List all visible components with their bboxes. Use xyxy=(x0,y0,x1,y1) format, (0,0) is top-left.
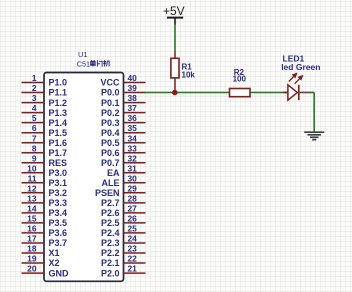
pin 36 (P0.3) xyxy=(101,113,146,128)
pin 26 (P2.5) xyxy=(101,214,146,229)
pin 37 (P0.2) xyxy=(101,103,146,118)
pin 18 (X1) xyxy=(22,244,60,259)
svg-text:P2.3: P2.3 xyxy=(101,238,120,248)
svg-text:P1.7: P1.7 xyxy=(49,148,68,158)
svg-text:P3.7: P3.7 xyxy=(49,238,68,248)
svg-text:+5V: +5V xyxy=(163,4,185,18)
svg-text:PSEN: PSEN xyxy=(95,188,120,198)
svg-text:X2: X2 xyxy=(49,258,60,268)
svg-text:37: 37 xyxy=(128,103,138,113)
svg-text:P1.3: P1.3 xyxy=(49,108,68,118)
pin 22 (P2.1) xyxy=(101,254,146,269)
svg-text:3: 3 xyxy=(32,93,37,103)
svg-text:11: 11 xyxy=(28,173,37,183)
svg-text:18: 18 xyxy=(27,244,37,254)
pin 11 (P3.1) xyxy=(22,173,68,188)
svg-text:RES: RES xyxy=(49,158,68,168)
pin 27 (P2.6) xyxy=(101,204,146,219)
pin 4 (P1.3) xyxy=(22,103,68,118)
junction node (P0.0 / R1 / R2) xyxy=(172,90,178,96)
svg-text:P0.6: P0.6 xyxy=(101,148,120,158)
svg-text:P2.0: P2.0 xyxy=(101,268,120,278)
pin 3 (P1.2) xyxy=(22,93,68,108)
pin 24 (P2.3) xyxy=(101,234,146,249)
pin 25 (P2.4) xyxy=(101,224,146,239)
svg-text:32: 32 xyxy=(128,153,138,163)
pin 39 (P0.0) xyxy=(101,83,146,98)
svg-text:P3.0: P3.0 xyxy=(49,168,68,178)
svg-text:39: 39 xyxy=(128,83,138,93)
svg-text:P3.4: P3.4 xyxy=(49,208,68,218)
svg-text:P1.5: P1.5 xyxy=(49,128,68,138)
svg-text:ALE: ALE xyxy=(102,178,120,188)
svg-text:VCC: VCC xyxy=(100,78,120,88)
pin 29 (PSEN) xyxy=(95,183,146,198)
svg-text:13: 13 xyxy=(27,194,37,204)
svg-text:P2.1: P2.1 xyxy=(101,258,120,268)
svg-text:P2.7: P2.7 xyxy=(101,198,120,208)
svg-text:9: 9 xyxy=(32,153,37,163)
label LED1 led Green xyxy=(281,54,320,72)
pin 5 (P1.4) xyxy=(22,113,68,128)
svg-text:20: 20 xyxy=(27,264,37,274)
pin 12 (P3.2) xyxy=(22,183,68,198)
designator U1 xyxy=(78,50,88,59)
pin 1 (P1.0) xyxy=(22,73,68,88)
svg-text:2: 2 xyxy=(32,83,37,93)
wire P0.0 node to R2 xyxy=(144,92,230,94)
pin 31 (EA) xyxy=(107,163,146,178)
wire LED1 cathode to ground xyxy=(299,93,314,132)
svg-text:P0.7: P0.7 xyxy=(101,158,120,168)
svg-text:P3.2: P3.2 xyxy=(49,188,68,198)
svg-text:P1.6: P1.6 xyxy=(49,138,68,148)
pin 40 (VCC) xyxy=(100,73,145,88)
label R1 10k xyxy=(182,62,196,79)
svg-text:23: 23 xyxy=(128,244,138,254)
pin 28 (P2.7) xyxy=(101,194,146,209)
svg-text:29: 29 xyxy=(128,183,138,193)
svg-text:24: 24 xyxy=(128,234,138,244)
label R2 100 xyxy=(233,68,247,83)
pin 23 (P2.2) xyxy=(101,244,146,259)
svg-text:P1.0: P1.0 xyxy=(49,78,68,88)
svg-text:17: 17 xyxy=(27,234,37,244)
svg-text:led Green: led Green xyxy=(281,62,320,72)
svg-text:14: 14 xyxy=(27,204,37,214)
svg-text:U1: U1 xyxy=(78,50,88,59)
svg-text:P2.2: P2.2 xyxy=(101,248,120,258)
svg-text:25: 25 xyxy=(128,224,138,234)
pin 17 (P3.7) xyxy=(22,234,68,249)
svg-text:22: 22 xyxy=(128,254,138,264)
pin 38 (P0.1) xyxy=(101,93,146,108)
svg-text:40: 40 xyxy=(128,73,138,83)
svg-text:P3.3: P3.3 xyxy=(49,198,68,208)
svg-text:P2.6: P2.6 xyxy=(101,208,120,218)
svg-text:P0.4: P0.4 xyxy=(101,128,120,138)
svg-text:6: 6 xyxy=(32,123,37,133)
pin 8 (P1.7) xyxy=(22,143,68,158)
svg-text:35: 35 xyxy=(128,123,138,133)
svg-text:34: 34 xyxy=(128,133,138,143)
svg-text:P2.5: P2.5 xyxy=(101,218,120,228)
pin 7 (P1.6) xyxy=(22,133,68,148)
svg-text:33: 33 xyxy=(128,143,138,153)
svg-text:P0.1: P0.1 xyxy=(101,98,120,108)
pin 32 (P0.7) xyxy=(101,153,146,168)
svg-text:P1.2: P1.2 xyxy=(49,98,68,108)
svg-text:21: 21 xyxy=(128,264,138,274)
svg-text:15: 15 xyxy=(27,214,37,224)
svg-text:P0.3: P0.3 xyxy=(101,118,120,128)
svg-text:P2.4: P2.4 xyxy=(101,228,120,238)
pin 9 (RES) xyxy=(22,153,68,168)
svg-text:P1.4: P1.4 xyxy=(49,118,68,128)
pin 20 (GND) xyxy=(22,264,70,279)
wire +5V to R1 xyxy=(174,25,176,52)
svg-text:P0.5: P0.5 xyxy=(101,138,120,148)
svg-text:5: 5 xyxy=(32,113,37,123)
pin 6 (P1.5) xyxy=(22,123,68,138)
pin 30 (ALE) xyxy=(102,173,146,188)
svg-text:38: 38 xyxy=(128,93,138,103)
pin 15 (P3.5) xyxy=(22,214,68,229)
svg-text:P0.0: P0.0 xyxy=(101,88,120,98)
pin 2 (P1.1) xyxy=(22,83,68,98)
svg-text:36: 36 xyxy=(128,113,138,123)
svg-text:10: 10 xyxy=(27,163,37,173)
svg-text:P1.1: P1.1 xyxy=(49,88,68,98)
svg-text:P0.2: P0.2 xyxy=(101,108,120,118)
svg-text:7: 7 xyxy=(32,133,37,143)
svg-text:12: 12 xyxy=(27,183,37,193)
pin 34 (P0.5) xyxy=(101,133,146,148)
resistor R2 xyxy=(230,89,251,97)
svg-text:4: 4 xyxy=(32,103,37,113)
LED LED1 xyxy=(288,74,302,101)
svg-text:1: 1 xyxy=(32,73,37,83)
svg-text:GND: GND xyxy=(49,268,70,278)
svg-text:P3.5: P3.5 xyxy=(49,218,68,228)
svg-text:P3.1: P3.1 xyxy=(49,178,68,188)
svg-text:X1: X1 xyxy=(49,248,60,258)
svg-text:8: 8 xyxy=(32,143,37,153)
svg-text:19: 19 xyxy=(27,254,37,264)
power +5V xyxy=(163,4,185,25)
svg-text:P3.6: P3.6 xyxy=(49,228,68,238)
svg-text:100: 100 xyxy=(233,74,247,83)
svg-text:31: 31 xyxy=(128,163,138,173)
svg-text:16: 16 xyxy=(27,224,37,234)
pin 10 (P3.0) xyxy=(22,163,68,178)
pin 19 (X2) xyxy=(22,254,60,269)
svg-text:27: 27 xyxy=(128,204,138,214)
pin 13 (P3.3) xyxy=(22,194,68,209)
svg-text:10k: 10k xyxy=(182,71,196,80)
svg-text:EA: EA xyxy=(107,168,120,178)
pin 21 (P2.0) xyxy=(101,264,146,279)
pin 35 (P0.4) xyxy=(101,123,146,138)
svg-text:C51: C51 xyxy=(77,59,90,68)
pin 16 (P3.6) xyxy=(22,224,68,239)
part type label C51单片机 xyxy=(77,59,110,68)
svg-text:26: 26 xyxy=(128,214,138,224)
ground xyxy=(304,132,324,140)
IC U1 body xyxy=(44,73,124,282)
svg-text:30: 30 xyxy=(128,173,138,183)
resistor R1 xyxy=(171,51,179,93)
pin 33 (P0.6) xyxy=(101,143,146,158)
pin 14 (P3.4) xyxy=(22,204,68,219)
wire R2 to LED1 xyxy=(250,92,288,94)
svg-text:28: 28 xyxy=(128,194,138,204)
